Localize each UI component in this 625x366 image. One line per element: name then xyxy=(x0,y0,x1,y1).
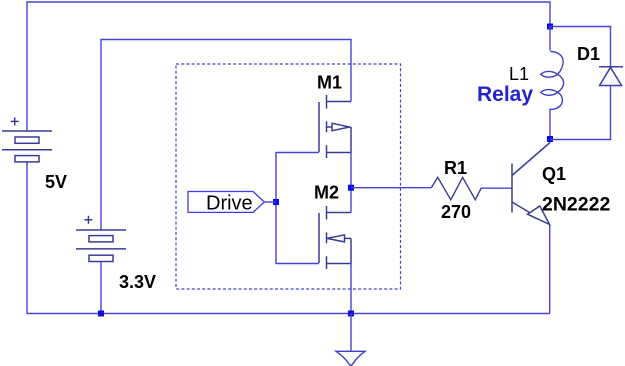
bottom ground rail wire xyxy=(27,313,550,315)
battery B1 5V xyxy=(2,131,52,162)
junction ground node xyxy=(348,311,354,317)
svg-text:M1: M1 xyxy=(317,73,342,93)
svg-text:5V: 5V xyxy=(45,172,67,192)
junction 3.3V bottom xyxy=(98,311,104,317)
wire M2 source to bottom rail xyxy=(350,264,352,314)
diode D1 xyxy=(599,67,623,86)
svg-text:Relay: Relay xyxy=(477,83,533,106)
dashed subcircuit box xyxy=(176,64,401,289)
wire top node to diode branch xyxy=(550,27,611,67)
junction drive node xyxy=(273,199,279,205)
resistor R1 zigzag xyxy=(431,177,481,200)
mosfet M2 xyxy=(319,206,351,269)
wire collector to node xyxy=(549,139,551,143)
svg-text:Q1: Q1 xyxy=(542,164,566,184)
wire R1 to Q1 base xyxy=(481,187,512,189)
wire M1 source to node xyxy=(350,153,352,188)
wire inner rail 3.3V xyxy=(101,40,351,231)
wire drive stub xyxy=(264,201,276,203)
svg-text:270: 270 xyxy=(441,202,471,222)
battery B2 3.3V xyxy=(76,230,126,262)
ground symbol xyxy=(336,351,365,365)
svg-text:R1: R1 xyxy=(444,158,467,178)
wire emitter to bottom rail xyxy=(549,225,551,314)
wire top rail 5V xyxy=(27,2,550,131)
wire ground stem xyxy=(350,314,352,352)
wire 5V battery bottom to bottom rail xyxy=(26,162,28,314)
junction collector node xyxy=(547,136,553,142)
wire M2 drain to node xyxy=(350,188,352,213)
wire 3.3V battery bottom to bottom rail xyxy=(100,262,102,315)
mosfet M1 xyxy=(319,95,351,158)
wire diode to bottom node xyxy=(550,85,611,140)
battery B2 plus sign xyxy=(84,216,92,224)
svg-text:2N2222: 2N2222 xyxy=(542,194,610,216)
junction node M2 drain / M1 source xyxy=(348,185,354,191)
wire node to R1 xyxy=(351,187,431,189)
wire top node to coil xyxy=(549,27,551,51)
svg-text:D1: D1 xyxy=(577,44,600,64)
transistor Q1 xyxy=(512,143,550,225)
battery B1 plus sign xyxy=(11,117,19,125)
svg-text:Drive: Drive xyxy=(206,193,253,215)
junction top right node xyxy=(547,24,553,30)
wire coil to bottom node xyxy=(549,109,551,140)
drive flag xyxy=(188,192,264,213)
svg-text:M2: M2 xyxy=(314,183,339,203)
svg-text:3.3V: 3.3V xyxy=(119,272,156,292)
wire gate bus xyxy=(276,153,319,264)
svg-text:L1: L1 xyxy=(509,64,529,84)
inductor L1 coil xyxy=(541,51,564,109)
